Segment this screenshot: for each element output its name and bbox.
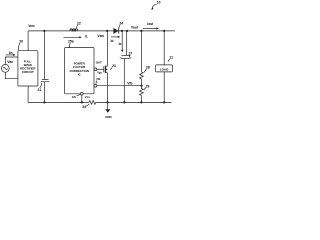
svg-text:IL: IL [85,34,88,38]
label 11 [168,56,173,62]
wire bottom rail right [96,101,172,103]
wire rectifier bottom pin [27,86,29,102]
wire GS to bottom rail [81,95,83,102]
current arrow Id [111,36,120,38]
svg-text:21: 21 [38,88,42,92]
wire load bottom lead [163,72,165,103]
svg-text:10: 10 [157,0,161,4]
node source rail [106,101,108,103]
wire cap21 bottom lead [43,82,45,103]
node cap27 bottom [123,101,125,103]
node load top [163,30,165,32]
node cap21 top [43,30,45,32]
label 21 [38,83,42,92]
node Vsw [106,30,108,32]
svg-text:CIRCUIT: CIRCUIT [22,70,34,74]
svg-text:Vout: Vout [131,26,139,30]
svg-text:Vac: Vac [7,60,13,64]
load box 11 [156,65,173,72]
resistor R29 [140,89,144,96]
pin GS [80,92,83,95]
label 24 [119,22,124,28]
svg-text:LOAD: LOAD [160,67,169,71]
resistor R34 [89,101,96,105]
wire load top lead [163,31,165,65]
node cap27 top [126,30,128,32]
pin OUT [94,68,97,71]
node divider top [140,30,142,32]
wire drain to Vsw [106,31,108,66]
resistor R28 [140,72,144,79]
node diode out [121,30,123,32]
capacitor C21 [41,80,50,82]
wire divider top lead [140,31,142,72]
svg-text:29: 29 [146,84,150,88]
wire R29 to bottom rail [140,95,142,102]
svg-text:Vgs: Vgs [97,71,102,75]
svg-text:34: 34 [82,105,86,109]
wire OUT to gate [97,68,104,70]
wire ac top to rectifier [5,57,18,65]
label 29 [144,84,150,89]
svg-text:11: 11 [169,56,173,60]
transistor Q23 mosfet [104,66,108,73]
label 27 [129,51,133,57]
svg-text:FB: FB [97,77,101,81]
current arrow Iin [6,54,16,56]
wire FB to Vfb node [97,85,142,87]
svg-text:GND: GND [105,115,111,119]
wire top rail [28,30,175,32]
leader GS [77,95,81,96]
full-wave rectifier box 20 [18,51,38,86]
svg-text:OUT: OUT [96,61,102,65]
node R29 bottom [140,101,142,103]
wire rectifier top pin to Vrec rail [27,31,29,51]
wire bottom rail left [28,101,89,103]
pfc ic box 25a [65,48,95,94]
svg-text:Iout: Iout [147,22,154,26]
svg-text:Id: Id [111,39,114,43]
svg-text:Io: Io [119,42,122,46]
svg-text:Iin: Iin [9,51,13,55]
label 10 figure reference [151,0,161,9]
svg-text:Vrec: Vrec [28,24,35,28]
label 34 [82,104,89,109]
svg-text:27: 27 [129,51,133,55]
label 23 [110,64,116,70]
wire cap21 top lead [43,31,45,80]
wire cap27 top lead [126,31,128,55]
wire source to ground rail [106,73,108,103]
ac source Vac [1,65,9,73]
label FB [96,77,100,84]
svg-text:23: 23 [112,64,116,68]
node GS rail [81,101,83,103]
svg-text:GS: GS [72,95,76,99]
wire ac bottom to rectifier [5,72,18,78]
label 20 [18,39,23,50]
label 22 [76,21,81,28]
wire R28 to Vfb [140,79,142,89]
svg-text:Vfb: Vfb [127,81,132,85]
current arrow Iout [143,27,159,29]
node load bottom [163,101,165,103]
node Vfb [141,85,143,87]
node cap21 bottom [43,101,45,103]
svg-text:25a: 25a [68,40,74,44]
svg-text:20: 20 [19,39,23,43]
current arrow IL [64,36,82,38]
capacitor C27 [120,55,132,58]
svg-text:Vsw: Vsw [98,34,105,38]
wire cap27 bottom lead [123,59,125,103]
diode D24 [113,28,118,34]
label 25a [68,40,74,48]
rectifier box text [20,60,36,74]
pfc ic text [69,62,88,77]
svg-text:Vcs: Vcs [85,95,91,99]
ground [105,102,110,112]
pin FB [94,84,97,87]
inductor L22 [70,29,78,31]
current arrow Io [121,32,123,53]
label 28 [144,65,150,72]
svg-text:28: 28 [146,65,150,69]
